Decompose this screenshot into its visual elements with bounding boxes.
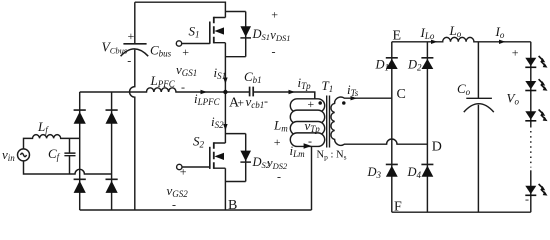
svg-text:D3: D3 <box>367 165 382 180</box>
svg-text:iLPFC: iLPFC <box>194 91 221 107</box>
svg-text:vGS2: vGS2 <box>167 183 189 199</box>
svg-text:-: - <box>172 198 176 212</box>
svg-text:S2: S2 <box>193 134 205 150</box>
svg-text:-: - <box>277 170 281 184</box>
svg-text:+: + <box>182 45 190 59</box>
svg-text:+: + <box>179 165 187 179</box>
svg-text:Io: Io <box>495 24 505 40</box>
svg-text:D1: D1 <box>375 58 390 73</box>
svg-text:Vo: Vo <box>507 91 520 107</box>
svg-text:C: C <box>397 87 406 102</box>
svg-text:VCbus: VCbus <box>102 40 128 56</box>
svg-text:Co: Co <box>457 81 471 97</box>
svg-text:D2: D2 <box>407 58 422 73</box>
svg-text:+: + <box>271 8 279 22</box>
svg-text:D4: D4 <box>407 165 422 180</box>
svg-text:vcb1: vcb1 <box>246 94 265 110</box>
svg-text:vGS1: vGS1 <box>176 62 197 78</box>
svg-text:Cf: Cf <box>48 146 61 162</box>
svg-text:iS2: iS2 <box>211 114 224 130</box>
svg-text:Lf: Lf <box>37 119 49 135</box>
svg-text:S1: S1 <box>189 24 200 40</box>
svg-text:vin: vin <box>2 147 15 163</box>
svg-text:D: D <box>432 140 442 155</box>
svg-text:-: - <box>181 80 185 94</box>
svg-text:+: + <box>511 46 519 60</box>
svg-text:-: - <box>127 54 131 68</box>
svg-text:T1: T1 <box>322 78 334 94</box>
svg-text:Lo: Lo <box>449 23 462 39</box>
svg-text:F: F <box>394 200 402 215</box>
svg-text:+: + <box>307 97 315 111</box>
svg-text:iS1: iS1 <box>214 65 227 81</box>
svg-text:-: - <box>525 192 529 206</box>
svg-text:Lm: Lm <box>273 118 288 134</box>
svg-text:Np : Ns: Np : Ns <box>317 150 347 162</box>
svg-text:+: + <box>237 96 245 110</box>
svg-text:vDS1: vDS1 <box>270 28 290 43</box>
svg-text:-: - <box>264 94 268 108</box>
svg-text:B: B <box>228 198 237 213</box>
svg-text:Cb1: Cb1 <box>244 69 262 85</box>
svg-text:iTp: iTp <box>298 75 312 91</box>
svg-text:iTs: iTs <box>347 82 359 98</box>
svg-text:DS1: DS1 <box>252 27 271 42</box>
svg-text:LPFC: LPFC <box>150 73 176 89</box>
svg-text:+: + <box>273 135 281 149</box>
svg-text:E: E <box>393 29 402 44</box>
svg-text:+: + <box>127 29 135 43</box>
svg-text:-: - <box>272 45 276 59</box>
svg-text:-: - <box>308 134 312 148</box>
svg-text:Cbus: Cbus <box>150 43 172 59</box>
svg-text:ILo: ILo <box>420 25 435 41</box>
